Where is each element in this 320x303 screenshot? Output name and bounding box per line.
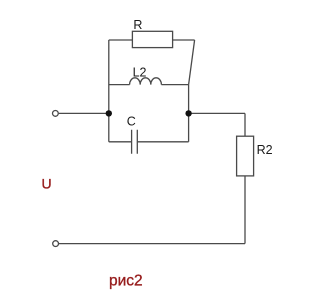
svg-text:U: U: [42, 175, 52, 191]
wire (left stub to inductor): [109, 84, 130, 86]
wire (down to R2): [244, 113, 246, 136]
svg-text:R: R: [133, 18, 142, 32]
wire (capacitor right lead): [137, 141, 188, 143]
wire (right node to R2 top, horizontal): [189, 112, 245, 114]
svg-text:R2: R2: [257, 143, 273, 157]
svg-text:C: C: [127, 115, 136, 129]
wire (stub to resistor R): [109, 39, 133, 41]
capacitor C: [132, 130, 138, 154]
wire (R right stub): [173, 39, 195, 41]
svg-text:L2: L2: [133, 65, 147, 79]
node (left junction): [106, 110, 112, 116]
terminal (bottom-left input): [53, 241, 59, 247]
wire (input to left node): [59, 112, 109, 114]
terminal (top-left input): [53, 111, 59, 117]
wire (left vertical bus): [108, 40, 110, 142]
node (right junction): [185, 110, 191, 116]
resistor R: [132, 31, 172, 47]
resistor R2: [237, 136, 254, 176]
wire (bottom return): [59, 243, 245, 245]
wire (slanted drop from R): [189, 40, 195, 85]
wire (inductor right stub): [161, 84, 188, 86]
wire (right vertical bus): [188, 85, 190, 142]
wire (capacitor left lead): [109, 141, 132, 143]
wire (R2 bottom down): [244, 176, 246, 244]
svg-text:рис2: рис2: [109, 273, 143, 290]
inductor L2: [130, 78, 162, 85]
